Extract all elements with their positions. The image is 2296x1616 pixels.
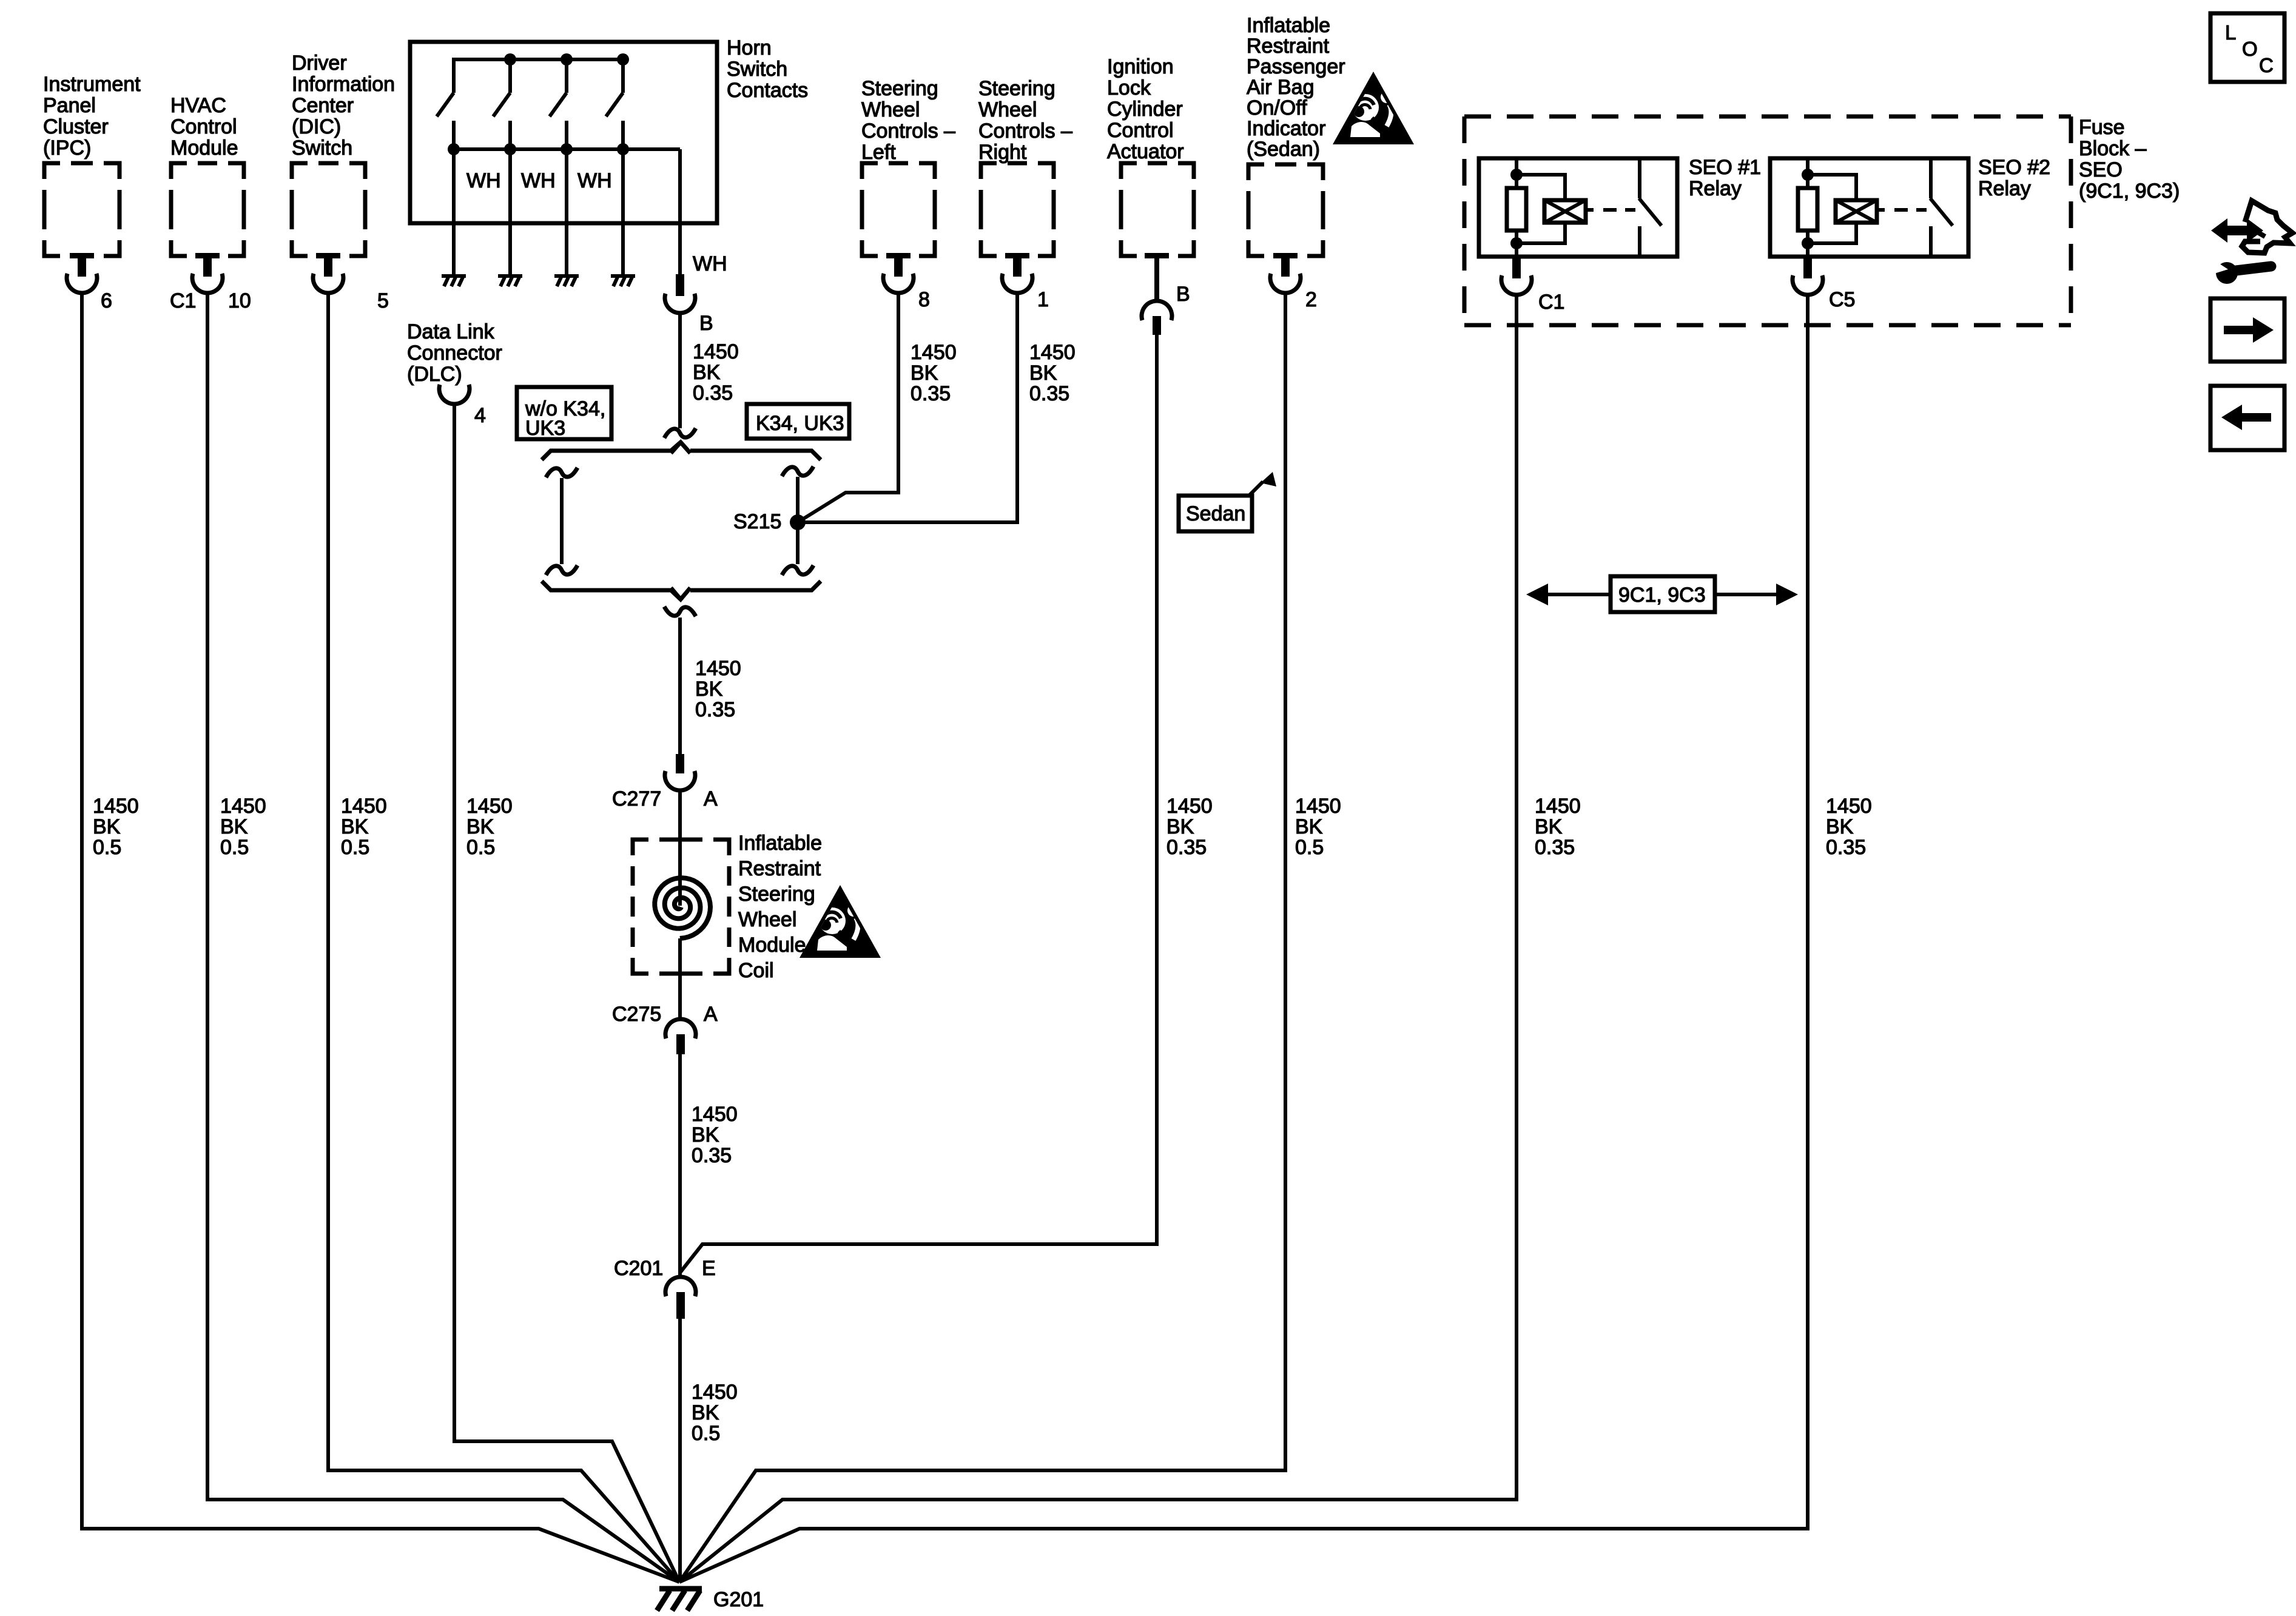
svg-text:0.35: 0.35 [692,1144,732,1167]
svg-text:Indicator: Indicator [1247,117,1325,140]
svg-text:E: E [702,1257,716,1280]
wire DIC to ground [328,292,679,1582]
horn ground wire 1 [452,149,456,275]
svg-text:Module: Module [170,136,238,160]
svg-text:0.35: 0.35 [911,382,951,405]
svg-text:Instrument: Instrument [43,73,141,96]
horn switch blade 2 [493,93,510,116]
svg-text:Switch: Switch [292,136,352,160]
svg-text:SEO: SEO [2079,158,2123,181]
svg-text:0.35: 0.35 [693,382,733,405]
svg-text:C1: C1 [1538,291,1564,314]
svg-text:0.35: 0.35 [1535,836,1575,859]
svg-text:0.35: 0.35 [1826,836,1866,859]
svg-text:C5: C5 [1829,288,1855,311]
horn switch lower contact 1 [452,121,456,149]
svg-text:UK3: UK3 [525,417,565,440]
horn lower bus dots [448,143,460,155]
svg-text:Driver: Driver [292,52,347,75]
back arrow box [2210,386,2284,450]
svg-text:Module: Module [738,934,806,957]
svg-text:5: 5 [377,289,389,312]
svg-text:Actuator: Actuator [1107,140,1184,163]
svg-text:Coil: Coil [738,959,774,982]
wire C201 to G201 [678,1319,682,1582]
svg-text:WH: WH [521,169,556,192]
svg-text:Controls –: Controls – [978,120,1072,143]
svg-text:BK: BK [1029,362,1057,385]
svg-text:C275: C275 [612,1003,661,1026]
svg-text:C1: C1 [170,289,196,312]
svg-text:Relay: Relay [1978,177,2031,200]
svg-text:BK: BK [220,815,248,838]
svg-text:Connector: Connector [407,342,502,365]
driver information center DIC switch box [292,52,395,293]
svg-text:Controls –: Controls – [861,120,955,143]
svg-text:1: 1 [1037,288,1049,311]
ground symbol 1 [442,276,466,286]
svg-text:Restraint: Restraint [738,857,821,880]
svg-text:BK: BK [341,815,369,838]
svg-text:Passenger: Passenger [1247,55,1345,78]
svg-text:SEO #2: SEO #2 [1978,156,2050,179]
svg-text:Sedan: Sedan [1186,502,1245,525]
main wire to C277 [678,618,682,754]
hand with double arrow and wrench icon [2211,201,2292,284]
svg-text:BK: BK [693,361,721,384]
wire label 1450 BK 0.5 (main lower) [692,1381,738,1445]
w/o K34 UK3 option box [517,387,611,439]
wire label 1450 BK 0.35 (C5) [1826,795,1872,859]
wire IPC to ground [82,292,679,1582]
svg-text:1450: 1450 [220,795,266,818]
break curl top [664,428,696,438]
svg-text:1450: 1450 [1167,795,1213,818]
svg-text:WH: WH [577,169,612,192]
instrument panel cluster IPC box [43,73,141,293]
svg-text:B: B [1176,283,1190,306]
svg-text:(DLC): (DLC) [407,363,462,386]
svg-text:WH: WH [466,169,501,192]
inflatable restraint steering wheel module coil box [633,840,729,974]
svg-text:Data Link: Data Link [407,320,495,343]
svg-text:Right: Right [978,141,1027,164]
horn top bus junction dots [504,53,516,66]
svg-text:BK: BK [466,815,494,838]
svg-text:Center: Center [292,94,354,117]
horn ground wire 3 [565,149,568,275]
svg-text:Switch: Switch [727,58,787,81]
svg-text:B: B [699,312,713,335]
wire label 1450 BK 0.35 (horn) [693,340,739,405]
sedan option box [1179,496,1252,531]
wire C277 to coil [678,790,682,906]
svg-text:1450: 1450 [693,340,739,363]
wire SWL to S215 [798,292,898,522]
svg-text:Steering: Steering [861,77,938,100]
svg-text:Block –: Block – [2079,137,2147,160]
steering wheel controls left box [861,77,955,293]
horn switch blade 1 [437,93,454,116]
wire label 1450 BK 0.35 (SWL) [911,341,957,405]
wire indicator to ground [679,292,1285,1582]
svg-text:1450: 1450 [1535,795,1581,818]
svg-text:1450: 1450 [695,657,741,680]
svg-text:HVAC: HVAC [170,94,226,117]
svg-text:On/Off: On/Off [1247,96,1307,120]
horn lower bus [454,147,680,151]
wire coil to C275 [678,938,682,1020]
svg-text:0.5: 0.5 [341,836,369,859]
svg-text:Air Bag: Air Bag [1247,76,1315,99]
svg-text:Cluster: Cluster [43,115,109,138]
svg-text:L: L [2225,21,2236,44]
svg-text:1450: 1450 [466,795,513,818]
horn switch lower contact 3 [565,121,568,149]
svg-text:BK: BK [93,815,121,838]
svg-text:Lock: Lock [1107,76,1151,99]
connector C277 [676,754,684,773]
svg-text:0.5: 0.5 [692,1422,720,1445]
K34 UK3 option box [747,404,849,439]
wire label 1450 BK 0.5 (HVAC) [220,795,266,859]
svg-text:Inflatable: Inflatable [738,832,822,855]
svg-text:6: 6 [101,289,112,312]
svg-text:10: 10 [228,289,251,312]
svg-text:Horn: Horn [727,36,772,59]
svg-text:Left: Left [861,141,896,164]
splice S215 [790,514,806,530]
ignition lock cylinder control actuator box [1107,55,1194,335]
horn switch stubs [510,59,623,93]
svg-text:2: 2 [1305,288,1317,311]
relay SEO #2 [1770,158,1968,257]
option path right curls and wire [782,466,813,476]
svg-text:Contacts: Contacts [727,79,808,102]
steering wheel controls right box [978,77,1072,293]
svg-text:BK: BK [1167,815,1194,838]
wire label 1450 BK 0.35 (main mid) [692,1103,738,1167]
svg-text:1450: 1450 [341,795,387,818]
horn ground wire 2 [508,149,512,275]
horn switch blade 3 [550,93,567,116]
svg-text:S215: S215 [733,510,781,533]
wire horn B to option brace [678,312,682,428]
fuse block SEO dashed box [1464,116,2071,325]
wire C5 to ground [679,294,1808,1582]
connector C275 [665,1019,696,1039]
svg-text:BK: BK [1295,815,1323,838]
inflatable restraint passenger air bag on/off indicator box [1247,14,1345,293]
9C1 9C3 span arrow [1526,576,1798,612]
option path left curls and wire [546,468,577,477]
ground symbol 3 [554,276,579,286]
connector C201 [665,1277,696,1296]
svg-text:Ignition: Ignition [1107,55,1174,78]
wire DLC to ground [454,403,679,1582]
svg-text:Inflatable: Inflatable [1247,14,1330,37]
horn switch contacts box [410,42,717,223]
svg-text:Control: Control [1107,119,1174,142]
svg-text:Restraint: Restraint [1247,35,1330,58]
relay SEO #1 [1479,158,1677,257]
wire HVAC to ground [207,292,679,1582]
svg-text:BK: BK [692,1123,719,1146]
horn top bus [454,59,624,93]
svg-text:BK: BK [1535,815,1563,838]
svg-text:8: 8 [918,288,930,311]
fuse block label [2079,116,2180,203]
wire label 1450 BK 0.5 (indicator) [1295,795,1341,859]
svg-text:BK: BK [692,1401,719,1424]
svg-text:9C1, 9C3: 9C1, 9C3 [1618,584,1706,607]
wire label 1450 BK 0.35 (ignition) [1167,795,1213,859]
sedan arrow [1248,482,1263,496]
wire label 1450 BK 0.35 (SWR) [1029,341,1076,405]
wire label 1450 BK 0.35 (C1) [1535,795,1581,859]
data link connector DLC [407,320,502,404]
horn ground wire 4 [621,149,625,275]
svg-text:0.5: 0.5 [466,836,495,859]
SEO #1 relay label [1689,156,1761,200]
wire ignition to C201 junction [680,335,1157,1273]
svg-text:Cylinder: Cylinder [1107,98,1183,121]
svg-text:BK: BK [695,678,723,701]
ground symbol 2 [498,276,522,286]
svg-text:Steering: Steering [978,77,1055,100]
svg-text:C201: C201 [614,1257,663,1280]
svg-text:(9C1, 9C3): (9C1, 9C3) [2079,180,2180,203]
svg-text:Control: Control [170,115,237,138]
svg-text:0.35: 0.35 [1029,382,1069,405]
svg-text:0.5: 0.5 [1295,836,1324,859]
svg-text:Fuse: Fuse [2079,116,2125,139]
svg-text:0.35: 0.35 [695,698,735,721]
svg-text:WH: WH [693,252,727,275]
svg-text:0.5: 0.5 [93,836,121,859]
svg-text:(Sedan): (Sedan) [1247,138,1320,161]
horn switch lower contact 2 [508,121,512,149]
svg-text:Wheel: Wheel [978,98,1037,121]
svg-text:Steering: Steering [738,883,815,906]
svg-text:A: A [704,787,718,810]
svg-text:A: A [704,1003,718,1026]
svg-text:G201: G201 [713,1588,764,1611]
svg-text:BK: BK [1826,815,1854,838]
horn switch lower contact 4 [621,121,625,149]
connector C1 (relay 1) [1512,257,1521,278]
svg-text:Wheel: Wheel [738,908,796,931]
svg-text:1450: 1450 [692,1381,738,1404]
horn output wire [678,149,682,274]
svg-text:BK: BK [911,362,938,385]
svg-text:4: 4 [474,404,486,427]
HVAC control module box [170,94,244,293]
horn connector B pin [676,274,684,296]
wire C275 to C201 [678,1054,682,1278]
break curl bottom [664,607,696,616]
svg-text:1450: 1450 [1295,795,1341,818]
svg-text:(DIC): (DIC) [292,115,341,138]
wire label 1450 BK 0.35 (main upper) [695,657,741,721]
svg-text:C: C [2259,54,2274,76]
svg-text:K34, UK3: K34, UK3 [756,412,844,435]
svg-text:Panel: Panel [43,94,96,117]
connector C5 (relay 2) [1803,257,1812,278]
under brace [542,581,821,599]
forward arrow box [2210,298,2284,362]
coil label [738,832,822,982]
svg-text:SEO #1: SEO #1 [1689,156,1761,179]
LOC reference box [2210,13,2284,82]
horn switch blade 4 [606,93,623,116]
svg-text:1450: 1450 [1029,341,1076,364]
wire label 1450 BK 0.5 (DLC) [466,795,513,859]
svg-text:1450: 1450 [93,795,139,818]
svg-text:(IPC): (IPC) [43,136,91,160]
svg-text:Relay: Relay [1689,177,1742,200]
SEO #2 relay label [1978,156,2050,200]
svg-text:1450: 1450 [911,341,957,364]
wire label 1450 BK 0.5 (DIC) [341,795,387,859]
ground symbol 4 [611,276,635,286]
svg-text:1450: 1450 [1826,795,1872,818]
svg-text:1450: 1450 [692,1103,738,1126]
svg-text:0.35: 0.35 [1167,836,1207,859]
svg-text:Information: Information [292,73,395,96]
svg-text:O: O [2242,38,2258,60]
over brace [542,442,821,460]
svg-text:Wheel: Wheel [861,98,920,121]
svg-text:C277: C277 [612,787,661,810]
wire label 1450 BK 0.5 (IPC) [93,795,139,859]
horn label [727,36,808,102]
svg-text:0.5: 0.5 [220,836,249,859]
ground G201 [657,1589,702,1611]
wire C1 to ground [679,294,1517,1582]
wire SWR to S215 [798,292,1017,522]
